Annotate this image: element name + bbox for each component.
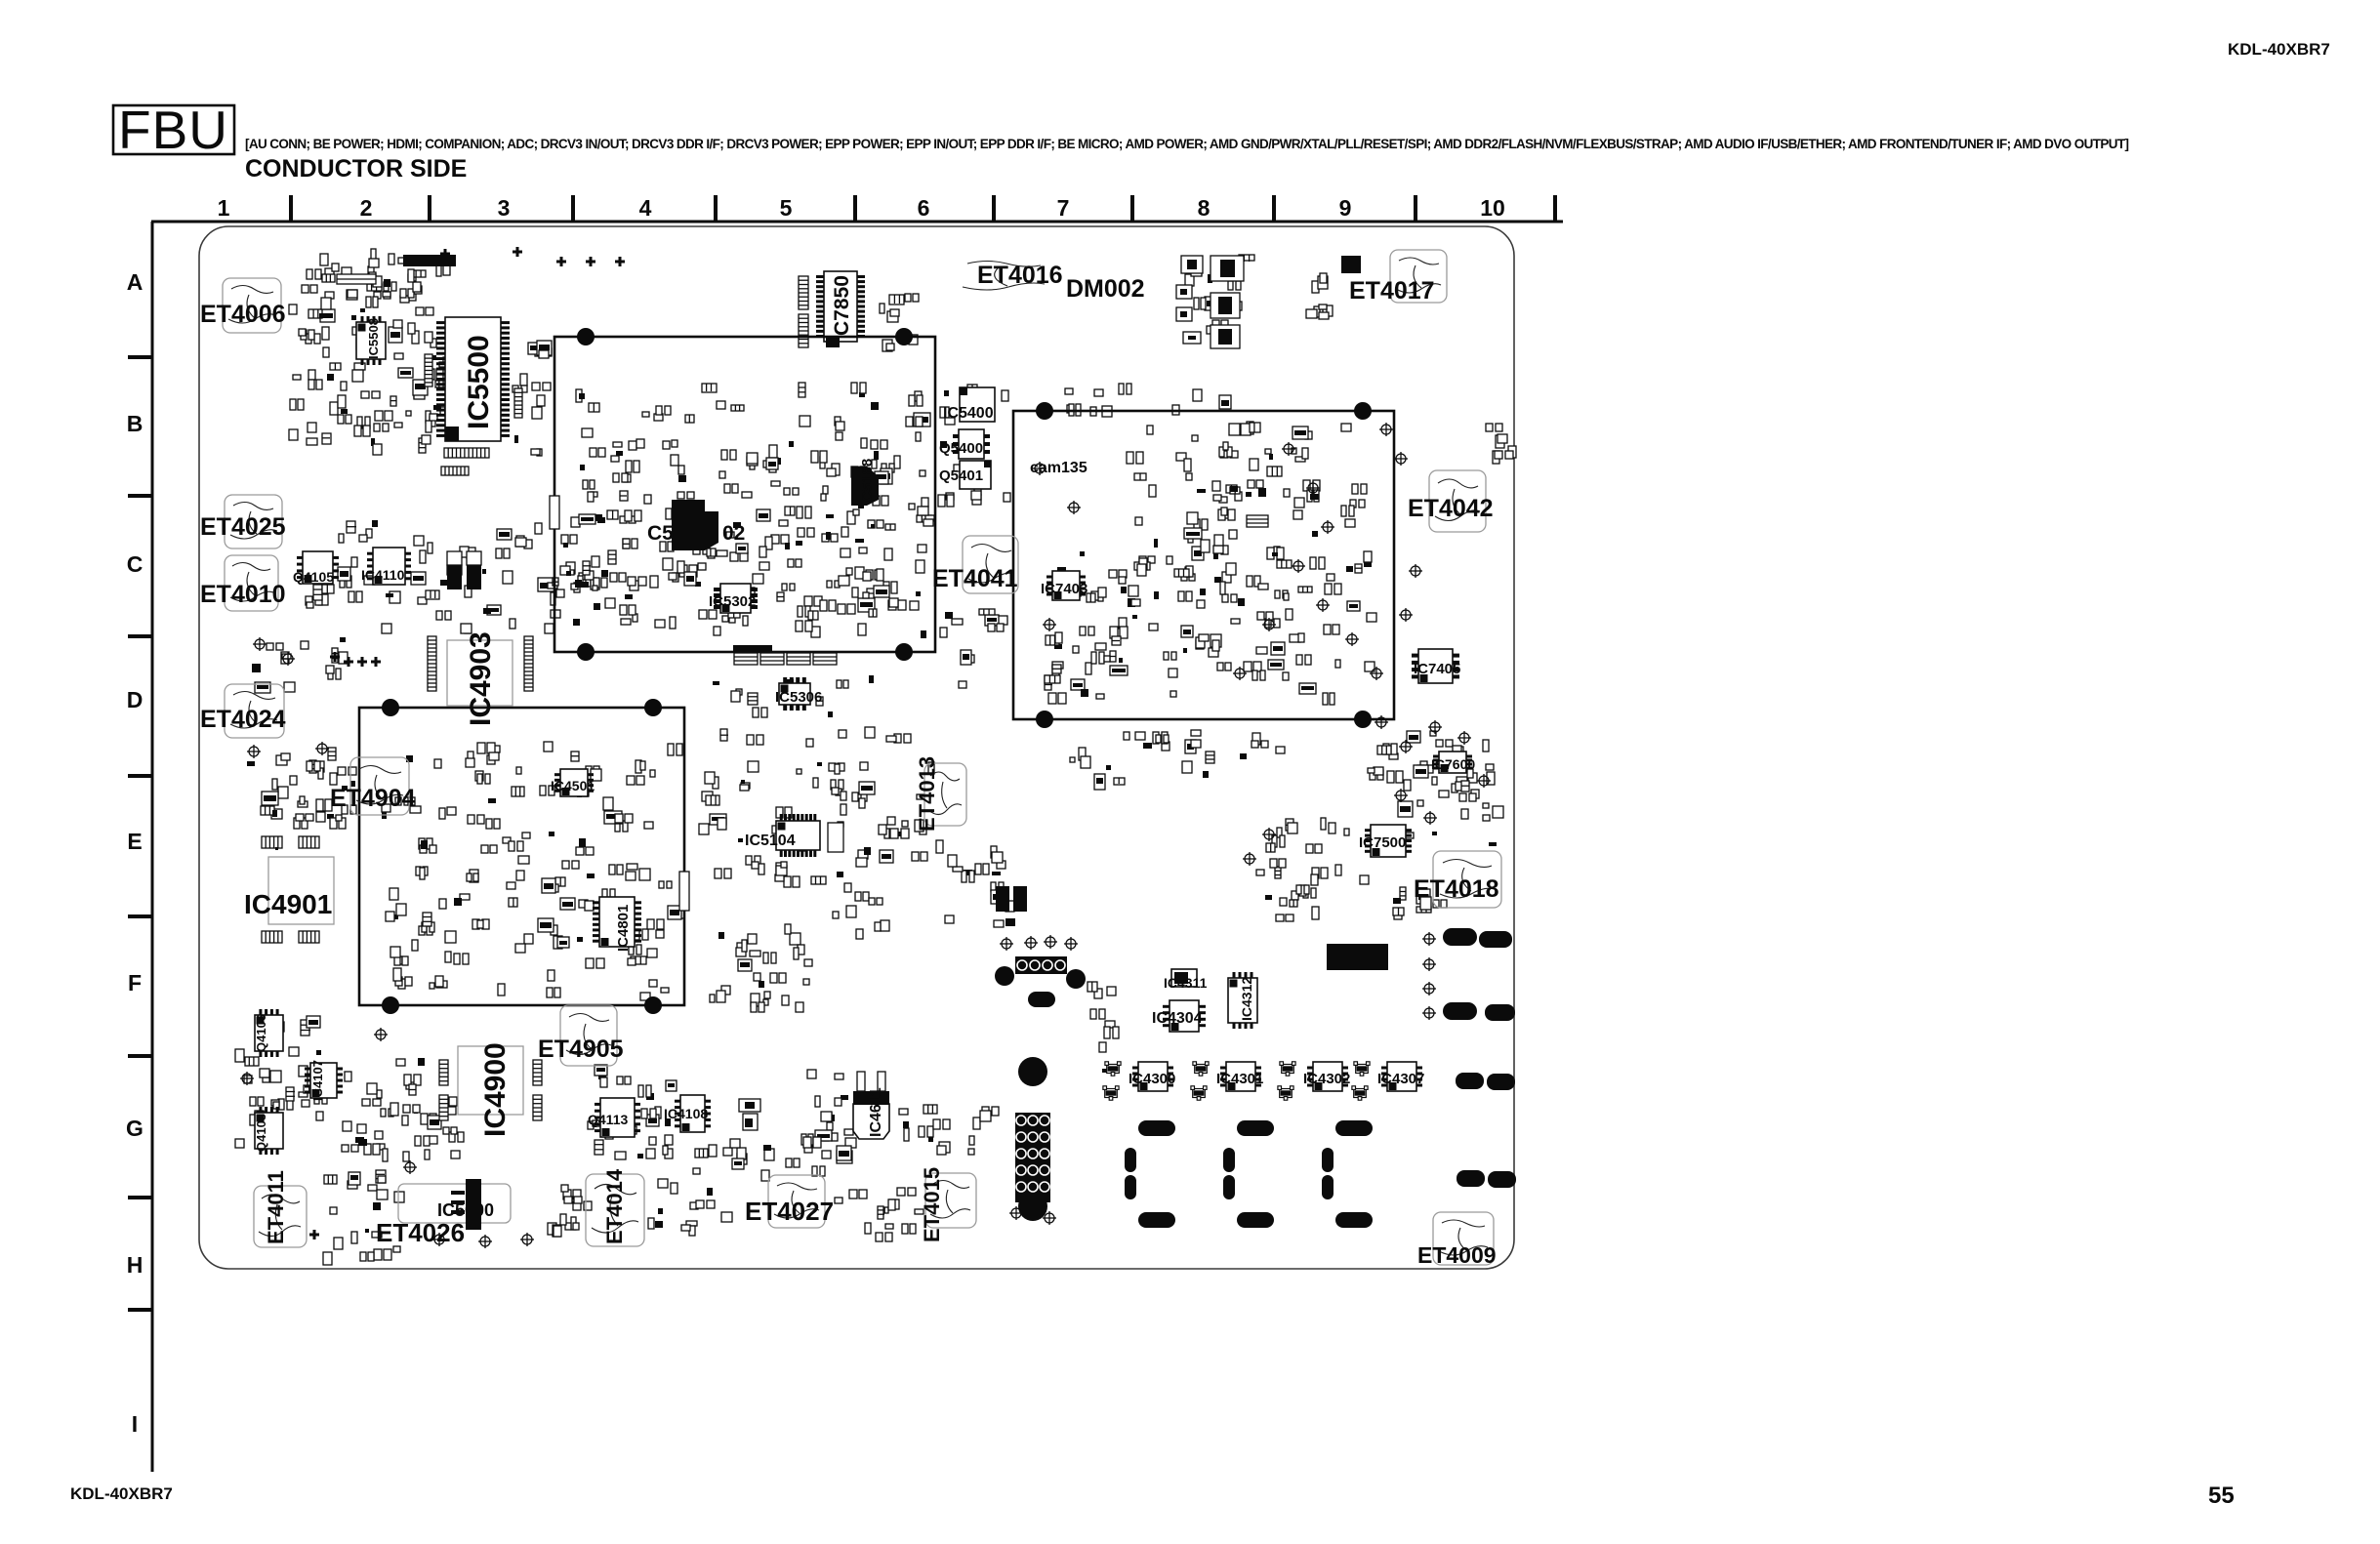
svg-text:H: H (127, 1252, 144, 1278)
svg-text:7: 7 (1057, 195, 1070, 221)
svg-text:3: 3 (498, 195, 511, 221)
svg-text:1: 1 (218, 195, 230, 221)
svg-text:IC5508: IC5508 (366, 318, 381, 359)
svg-text:IC7600: IC7600 (1431, 756, 1475, 772)
svg-text:Q4113: Q4113 (588, 1112, 628, 1127)
svg-text:DM002: DM002 (1066, 275, 1145, 303)
svg-text:4: 4 (639, 195, 652, 221)
svg-text:IC4108: IC4108 (664, 1106, 708, 1121)
svg-text:Q4105: Q4105 (293, 569, 334, 585)
svg-text:IC4611: IC4611 (868, 1087, 884, 1137)
svg-text:C: C (127, 551, 144, 577)
svg-text:55: 55 (2208, 1483, 2235, 1509)
svg-text:ET4006: ET4006 (200, 301, 286, 328)
svg-text:E: E (127, 829, 142, 854)
svg-text:C5: C5 (647, 522, 674, 545)
svg-text:ET4015: ET4015 (920, 1167, 944, 1242)
svg-text:ET4010: ET4010 (200, 581, 286, 608)
svg-text:Q4108: Q4108 (254, 1114, 268, 1152)
svg-text:I: I (132, 1411, 138, 1437)
svg-text:IC4903: IC4903 (465, 631, 497, 726)
svg-text:ET4011: ET4011 (264, 1170, 288, 1244)
svg-text:2: 2 (360, 195, 373, 221)
svg-text:IC4304: IC4304 (1152, 1010, 1203, 1027)
svg-text:IC5400: IC5400 (943, 405, 994, 422)
svg-text:ET4041: ET4041 (932, 565, 1018, 592)
svg-text:ET4024: ET4024 (200, 706, 286, 733)
svg-text:ET4905: ET4905 (538, 1036, 624, 1063)
svg-text:C5188: C5188 (859, 459, 876, 502)
svg-text:ET4014: ET4014 (602, 1168, 627, 1244)
svg-text:ET4025: ET4025 (200, 513, 286, 541)
svg-text:ET4904: ET4904 (330, 785, 416, 812)
svg-text:FBU: FBU (118, 100, 227, 160)
svg-text:IC7405: IC7405 (1414, 661, 1460, 677)
svg-text:IC4901: IC4901 (244, 889, 332, 919)
svg-text:IC5104: IC5104 (745, 833, 796, 849)
svg-text:IC4501: IC4501 (551, 778, 595, 793)
svg-text:02: 02 (722, 522, 745, 545)
svg-text:ET4027: ET4027 (745, 1197, 834, 1226)
svg-text:C7850: C7850 (831, 275, 853, 336)
svg-text:IC7500: IC7500 (1359, 834, 1406, 851)
svg-text:[AU CONN; BE POWER; HDMI; COMP: [AU CONN; BE POWER; HDMI; COMPANION; ADC… (245, 137, 2129, 151)
svg-text:IC4307: IC4307 (1377, 1071, 1424, 1087)
svg-text:IC4110: IC4110 (361, 567, 405, 583)
svg-text:G: G (126, 1116, 144, 1141)
svg-text:Q5400: Q5400 (939, 440, 983, 457)
svg-text:IC4312: IC4312 (1239, 977, 1254, 1021)
svg-text:IC5306: IC5306 (775, 689, 822, 706)
svg-text:A: A (127, 269, 144, 295)
svg-text:IC5302: IC5302 (709, 593, 756, 610)
svg-text:ET4018: ET4018 (1414, 875, 1499, 903)
svg-text:Q5401: Q5401 (939, 467, 983, 484)
svg-text:6: 6 (918, 195, 930, 221)
svg-text:IC4300: IC4300 (1128, 1071, 1175, 1087)
svg-text:10: 10 (1480, 195, 1505, 221)
svg-text:Q4106: Q4106 (254, 1014, 268, 1052)
svg-text:IC4301: IC4301 (1216, 1071, 1263, 1087)
svg-text:ET4013: ET4013 (915, 756, 939, 832)
svg-text:5: 5 (780, 195, 793, 221)
svg-text:KDL-40XBR7: KDL-40XBR7 (70, 1484, 173, 1503)
svg-text:IC4801: IC4801 (615, 905, 632, 952)
svg-text:IC4107: IC4107 (310, 1060, 325, 1101)
svg-text:KDL-40XBR7: KDL-40XBR7 (2228, 40, 2330, 59)
svg-text:cam135: cam135 (1030, 460, 1087, 476)
svg-text:IC4302: IC4302 (1303, 1071, 1350, 1087)
svg-text:B: B (127, 411, 144, 436)
svg-text:ET4017: ET4017 (1349, 277, 1435, 305)
svg-text:IC5500: IC5500 (463, 335, 495, 429)
svg-text:IC4900: IC4900 (479, 1042, 512, 1137)
svg-text:F: F (128, 970, 142, 995)
svg-text:CONDUCTOR SIDE: CONDUCTOR SIDE (245, 155, 467, 183)
svg-text:ET4042: ET4042 (1408, 495, 1494, 522)
svg-text:IC4311: IC4311 (1164, 975, 1208, 991)
svg-text:9: 9 (1339, 195, 1352, 221)
svg-text:D: D (127, 687, 144, 712)
svg-text:8: 8 (1198, 195, 1211, 221)
svg-text:ET4009: ET4009 (1417, 1242, 1497, 1268)
svg-text:IC7403: IC7403 (1041, 581, 1087, 597)
